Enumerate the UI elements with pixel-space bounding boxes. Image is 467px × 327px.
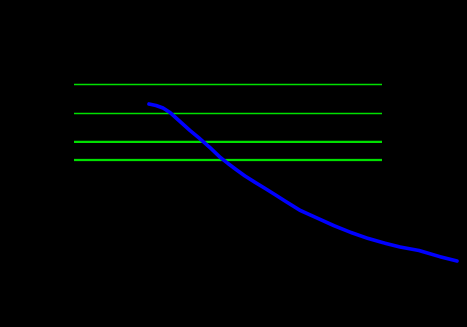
green threshold line 4	[74, 159, 382, 161]
blue data curve	[149, 104, 457, 261]
green threshold line 2	[74, 113, 382, 115]
green threshold line 3	[74, 141, 382, 143]
green threshold line 1	[74, 84, 382, 86]
